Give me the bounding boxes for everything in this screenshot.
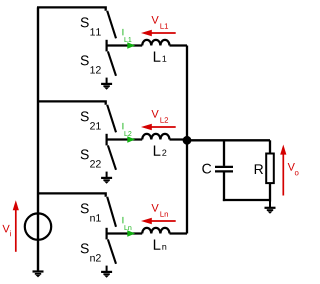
switch S21 blade <box>107 105 116 133</box>
voltage source Vi <box>25 213 51 239</box>
ground (output) <box>265 202 276 214</box>
label VL2 <box>151 110 168 123</box>
label L1 <box>154 51 167 61</box>
wire Ln to right bus <box>170 232 188 234</box>
label Ln <box>154 239 166 249</box>
label Vo <box>288 163 299 175</box>
node post cell3 <box>105 228 107 240</box>
wire node to output <box>187 139 270 141</box>
inductor Ln <box>142 228 169 234</box>
label IL2 <box>122 123 131 136</box>
wire output bottom <box>223 199 270 201</box>
node post cell1 <box>105 40 107 52</box>
switch Sn1 blade <box>107 197 116 227</box>
voltage arrow VL1 <box>141 30 176 36</box>
wire right bus <box>186 46 188 234</box>
switch S12 blade <box>108 51 116 75</box>
voltage arrow VL2 <box>141 124 176 130</box>
wire cell2 top <box>37 101 106 104</box>
wire L1 to right bus <box>170 44 188 46</box>
label S11 <box>81 17 101 35</box>
label Sn1 <box>81 203 101 221</box>
label S21 <box>81 111 101 129</box>
wire input bus <box>37 7 39 270</box>
label S22 <box>81 149 101 167</box>
inductor L2 <box>142 134 169 140</box>
label IL1 <box>122 29 131 42</box>
label S12 <box>81 55 101 73</box>
label ILn <box>122 217 131 230</box>
arrow Vi <box>13 200 19 252</box>
ground (Sn2) <box>101 266 112 278</box>
wire cell3 top <box>37 193 106 196</box>
wire cell1 top <box>37 7 106 10</box>
wire cell3 node to Ln <box>107 232 143 234</box>
current arrow IL2 <box>127 136 135 142</box>
node post cell2 <box>105 134 107 146</box>
capacitor C <box>215 140 233 201</box>
switch Sn2 blade <box>108 239 116 263</box>
ground (S22) <box>101 172 112 184</box>
ground (source) <box>33 272 44 278</box>
ground (S12) <box>101 78 112 90</box>
resistor R <box>266 140 274 201</box>
label R <box>255 164 263 174</box>
switch S22 blade <box>108 145 116 169</box>
switch S11 blade <box>107 11 116 39</box>
voltage arrow VLn <box>141 218 176 224</box>
arrow Vo <box>280 145 286 196</box>
current arrow ILn <box>127 230 135 236</box>
label C <box>202 164 211 174</box>
wire L2 to right bus <box>170 138 188 140</box>
wire cell1 node to L1 <box>107 44 143 46</box>
label L2 <box>154 145 167 155</box>
label Sn2 <box>81 243 101 261</box>
label VLn <box>151 204 168 217</box>
wire cell2 node to L2 <box>107 138 143 140</box>
inductor L1 <box>142 40 169 46</box>
current arrow IL1 <box>127 42 135 48</box>
label Vi <box>2 225 10 236</box>
node output junction <box>183 136 192 145</box>
label VL1 <box>151 16 168 29</box>
